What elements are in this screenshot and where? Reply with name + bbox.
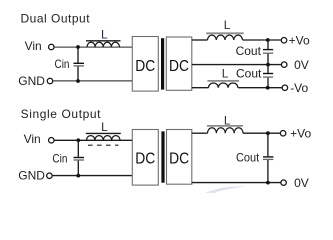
svg-text:Dual Output: Dual Output xyxy=(21,12,91,26)
wire +Vo inductor to terminal (single) xyxy=(243,132,281,134)
svg-text:Vin: Vin xyxy=(25,39,42,53)
svg-text:DC: DC xyxy=(169,58,189,75)
svg-text:GND: GND xyxy=(18,169,45,183)
svg-text:-Vo: -Vo xyxy=(290,81,308,95)
svg-text:DC: DC xyxy=(135,150,155,167)
svg-text:Cout: Cout xyxy=(236,151,260,165)
node junction GND/Cin (dual) xyxy=(76,79,80,83)
terminal +Vo (single) xyxy=(280,130,286,136)
terminal +Vo (dual) xyxy=(281,38,287,44)
terminal Vin (dual) xyxy=(49,44,55,50)
wire Vin to DC box (dual) xyxy=(54,46,132,48)
svg-text:L: L xyxy=(101,28,108,42)
svg-text:L: L xyxy=(101,120,108,134)
terminal Vin (single) xyxy=(49,138,55,144)
converter box U1 DC (dual left) xyxy=(132,37,158,92)
wire +Vo from box to inductor (dual) xyxy=(192,39,208,41)
inductor L input core bar (single) xyxy=(86,132,121,134)
capacitor Cout 2 (dual) xyxy=(263,65,273,88)
converter box U3 DC (single left) xyxy=(132,130,158,186)
svg-text:Vin: Vin xyxy=(24,132,41,146)
node junction 0V (single) xyxy=(266,181,270,185)
node junction +Vo/Cout1 (dual) xyxy=(266,38,270,42)
svg-text:L: L xyxy=(222,67,229,81)
svg-text:Cout: Cout xyxy=(236,44,262,58)
wire +Vo inductor to terminal (dual) xyxy=(243,39,282,41)
capacitor Cout (single) xyxy=(263,133,273,182)
capacitor Cout 1 (dual) xyxy=(263,40,273,65)
terminal 0V (single) xyxy=(281,180,287,186)
converter box U2 DC (dual right) xyxy=(166,37,192,90)
svg-text:Cout: Cout xyxy=(236,66,262,80)
svg-text:0V: 0V xyxy=(294,58,309,72)
wire GND to DC box (dual) xyxy=(53,80,132,82)
inductor L input coil (single) xyxy=(87,136,121,141)
inductor L output coil (single) xyxy=(208,128,244,133)
wire GND to DC box (single) xyxy=(53,175,133,177)
node junction -Vo/Cout2 (dual) xyxy=(266,86,270,90)
inductor L output top core bar grey (dual) xyxy=(206,32,244,34)
inductor L input coil (dual) xyxy=(87,42,119,47)
svg-text:DC: DC xyxy=(135,58,155,75)
node junction GND/Cin (single) xyxy=(76,174,80,178)
converter box U4 DC (single right) xyxy=(167,130,192,185)
inductor L output bottom coil (dual) xyxy=(209,83,238,88)
node junction +Vo/Cout (single) xyxy=(266,131,270,135)
wire Vin to DC box (single) xyxy=(54,139,132,141)
svg-text:0V: 0V xyxy=(294,176,309,190)
node junction Vin/Cin (dual) xyxy=(76,45,80,49)
wire -Vo inductor to terminal (dual) xyxy=(238,87,282,89)
wire -Vo from box to inductor (dual) xyxy=(192,87,209,89)
wire 0V from box to terminal (dual) xyxy=(192,64,282,66)
inductor L input dashed line (single) xyxy=(88,144,119,146)
terminal GND (dual) xyxy=(47,78,53,84)
wire +Vo from box to inductor (single) xyxy=(192,132,208,134)
capacitor Cin (dual) xyxy=(74,47,85,81)
svg-text:Single Output: Single Output xyxy=(21,107,102,121)
inductor L output core bar grey (single) xyxy=(207,125,243,127)
terminal 0V (dual) xyxy=(281,62,287,68)
svg-text:GND: GND xyxy=(18,74,45,88)
node junction Vin/Cin (single) xyxy=(76,138,80,142)
svg-text:DC: DC xyxy=(169,150,189,167)
svg-text:Cin: Cin xyxy=(52,151,67,165)
node junction 0V (dual) xyxy=(266,63,270,67)
terminal -Vo (dual) xyxy=(282,85,288,91)
transformer T2 core bar (single) xyxy=(161,131,164,182)
svg-text:+Vo: +Vo xyxy=(289,34,310,48)
svg-text:+Vo: +Vo xyxy=(290,127,311,141)
inductor L output bottom core bar grey (dual) xyxy=(207,80,239,82)
watermark swoosh artifact xyxy=(206,186,247,193)
svg-text:L: L xyxy=(224,18,231,32)
transformer T1 core bar (dual) xyxy=(161,38,164,89)
inductor L input core bar (dual) xyxy=(86,40,121,42)
wire 0V from box to terminal (single) xyxy=(192,182,281,184)
capacitor Cin (single) xyxy=(74,140,85,175)
inductor L output top coil (dual) xyxy=(208,35,243,40)
svg-text:Cin: Cin xyxy=(55,57,70,71)
terminal GND (single) xyxy=(47,173,53,179)
